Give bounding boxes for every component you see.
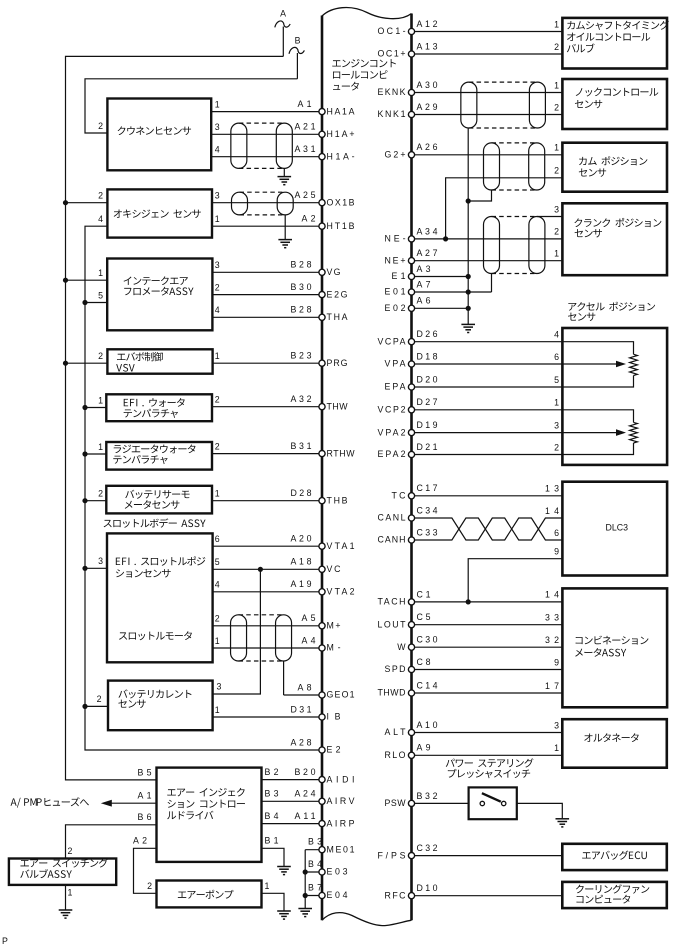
svg-text:D26: D26 xyxy=(417,329,438,339)
svg-text:D28: D28 xyxy=(291,488,312,498)
svg-text:2: 2 xyxy=(98,121,103,131)
svg-text:VG: VG xyxy=(327,267,341,277)
svg-text:A32: A32 xyxy=(291,394,312,404)
svg-text:5: 5 xyxy=(215,557,220,567)
svg-text:1: 1 xyxy=(215,705,220,715)
svg-text:2: 2 xyxy=(215,395,220,405)
svg-text:E2G: E2G xyxy=(327,289,348,299)
svg-text:A19: A19 xyxy=(291,579,312,589)
svg-text:NE+: NE+ xyxy=(385,255,406,265)
svg-text:M-: M- xyxy=(327,643,341,653)
svg-text:B32: B32 xyxy=(417,791,438,801)
svg-text:THB: THB xyxy=(327,495,348,505)
svg-text:C30: C30 xyxy=(417,635,438,645)
svg-text:3: 3 xyxy=(554,204,559,214)
svg-text:EPA: EPA xyxy=(385,382,406,392)
svg-text:A24: A24 xyxy=(295,789,316,799)
svg-text:AIRV: AIRV xyxy=(327,796,355,806)
svg-text:C14: C14 xyxy=(417,680,438,690)
svg-text:VTA1: VTA1 xyxy=(327,541,355,551)
svg-text:A12: A12 xyxy=(417,19,438,29)
svg-text:A18: A18 xyxy=(291,557,312,567)
svg-text:A20: A20 xyxy=(291,534,312,544)
svg-text:DLC3: DLC3 xyxy=(606,522,629,532)
svg-text:M+: M+ xyxy=(327,621,341,631)
svg-text:E02: E02 xyxy=(385,303,406,313)
svg-text:A30: A30 xyxy=(417,80,438,90)
svg-text:D21: D21 xyxy=(417,442,438,452)
svg-text:3: 3 xyxy=(217,682,222,692)
svg-text:PSW: PSW xyxy=(385,798,407,808)
svg-text:B30: B30 xyxy=(291,282,312,292)
svg-text:ALT: ALT xyxy=(385,727,407,737)
svg-text:2: 2 xyxy=(215,441,220,451)
svg-text:A: A xyxy=(280,9,286,19)
svg-text:2: 2 xyxy=(554,42,559,52)
svg-text:1: 1 xyxy=(215,99,220,109)
svg-text:C34: C34 xyxy=(417,505,438,515)
svg-text:1: 1 xyxy=(265,881,270,891)
svg-text:D10: D10 xyxy=(417,883,438,893)
svg-text:CANH: CANH xyxy=(378,535,406,545)
svg-text:4: 4 xyxy=(554,330,559,340)
svg-text:C32: C32 xyxy=(417,843,438,853)
svg-text:2: 2 xyxy=(97,694,102,704)
svg-text:A21: A21 xyxy=(295,122,316,132)
svg-text:VC: VC xyxy=(327,564,342,574)
svg-text:1: 1 xyxy=(554,143,559,153)
svg-text:3: 3 xyxy=(215,191,220,201)
svg-text:1: 1 xyxy=(98,442,103,452)
svg-text:B: B xyxy=(295,36,301,46)
svg-text:1: 1 xyxy=(554,249,559,259)
svg-text:3: 3 xyxy=(98,556,103,566)
svg-text:5: 5 xyxy=(98,290,103,300)
svg-text:EKNK: EKNK xyxy=(378,87,406,97)
svg-text:B20: B20 xyxy=(295,767,316,777)
svg-text:3: 3 xyxy=(554,720,559,730)
svg-text:6: 6 xyxy=(215,534,220,544)
svg-text:2: 2 xyxy=(554,102,559,112)
svg-text:1: 1 xyxy=(98,395,103,405)
svg-text:2: 2 xyxy=(98,351,103,361)
svg-text:E03: E03 xyxy=(327,867,348,877)
svg-text:LOUT: LOUT xyxy=(378,619,407,629)
svg-text:2: 2 xyxy=(68,846,73,856)
svg-text:OC1+: OC1+ xyxy=(378,49,406,59)
svg-text:1: 1 xyxy=(554,743,559,753)
svg-text:NE-: NE- xyxy=(385,234,406,244)
svg-text:A25: A25 xyxy=(295,190,316,200)
svg-text:4: 4 xyxy=(215,145,220,155)
svg-text:B28: B28 xyxy=(291,305,312,315)
svg-text:1: 1 xyxy=(98,268,103,278)
svg-text:2: 2 xyxy=(215,614,220,624)
svg-text:1: 1 xyxy=(554,19,559,29)
svg-text:D20: D20 xyxy=(417,374,438,384)
svg-text:4: 4 xyxy=(215,580,220,590)
svg-text:1: 1 xyxy=(215,489,220,499)
svg-text:D19: D19 xyxy=(417,420,438,430)
svg-text:RTHW: RTHW xyxy=(327,448,356,458)
svg-text:THA: THA xyxy=(327,312,348,322)
svg-text:THW: THW xyxy=(327,401,349,411)
svg-text:9: 9 xyxy=(554,547,559,557)
svg-text:TACH: TACH xyxy=(378,597,406,607)
svg-text:C33: C33 xyxy=(417,527,438,537)
svg-text:3: 3 xyxy=(215,122,220,132)
svg-text:G2+: G2+ xyxy=(385,150,406,160)
svg-text:B31: B31 xyxy=(291,441,312,451)
svg-text:D27: D27 xyxy=(417,397,438,407)
svg-text:1: 1 xyxy=(554,80,559,90)
svg-text:A29: A29 xyxy=(417,102,438,112)
svg-text:D18: D18 xyxy=(417,351,438,361)
svg-text:1: 1 xyxy=(215,351,220,361)
svg-text:A27: A27 xyxy=(417,248,438,258)
svg-text:2: 2 xyxy=(98,489,103,499)
svg-text:RFC: RFC xyxy=(385,890,407,900)
svg-text:1: 1 xyxy=(215,636,220,646)
svg-text:1: 1 xyxy=(68,888,73,898)
svg-text:1: 1 xyxy=(215,214,220,224)
svg-text:2: 2 xyxy=(554,166,559,176)
svg-text:AIRP: AIRP xyxy=(327,818,355,828)
svg-text:B23: B23 xyxy=(291,351,312,361)
svg-text:9: 9 xyxy=(554,657,559,667)
svg-text:2: 2 xyxy=(98,191,103,201)
svg-text:B28: B28 xyxy=(291,260,312,270)
svg-text:A13: A13 xyxy=(417,41,438,51)
svg-text:D31: D31 xyxy=(291,704,312,714)
svg-text:4: 4 xyxy=(98,214,103,224)
svg-text:C17: C17 xyxy=(417,483,438,493)
svg-text:TC: TC xyxy=(392,491,407,501)
svg-text:PRG: PRG xyxy=(327,358,348,368)
svg-text:2: 2 xyxy=(554,442,559,452)
svg-text:A11: A11 xyxy=(295,811,316,821)
svg-text:2: 2 xyxy=(147,881,152,891)
svg-text:A26: A26 xyxy=(417,142,438,152)
svg-text:VPA: VPA xyxy=(385,359,406,369)
svg-text:6: 6 xyxy=(554,352,559,362)
svg-text:THWD: THWD xyxy=(378,688,406,698)
svg-text:E01: E01 xyxy=(385,287,406,297)
svg-text:A10: A10 xyxy=(417,720,438,730)
svg-text:A31: A31 xyxy=(295,144,316,154)
svg-text:2: 2 xyxy=(215,282,220,292)
svg-text:A28: A28 xyxy=(291,737,312,747)
svg-text:6: 6 xyxy=(554,528,559,538)
svg-text:SPD: SPD xyxy=(385,664,406,674)
svg-text:ME01: ME01 xyxy=(327,844,355,854)
svg-text:5: 5 xyxy=(554,375,559,385)
svg-text:E04: E04 xyxy=(327,890,348,900)
svg-text:2: 2 xyxy=(554,227,559,237)
svg-text:RLO: RLO xyxy=(385,750,406,760)
svg-text:W: W xyxy=(397,642,406,652)
svg-text:P: P xyxy=(2,936,8,946)
svg-text:F/PS: F/PS xyxy=(378,850,406,860)
svg-text:3: 3 xyxy=(215,260,220,270)
svg-text:A34: A34 xyxy=(417,226,438,236)
svg-text:1: 1 xyxy=(554,398,559,408)
svg-text:OX1B: OX1B xyxy=(327,197,355,207)
svg-text:4: 4 xyxy=(215,305,220,315)
svg-text:VTA2: VTA2 xyxy=(327,587,355,597)
svg-text:3: 3 xyxy=(554,420,559,430)
